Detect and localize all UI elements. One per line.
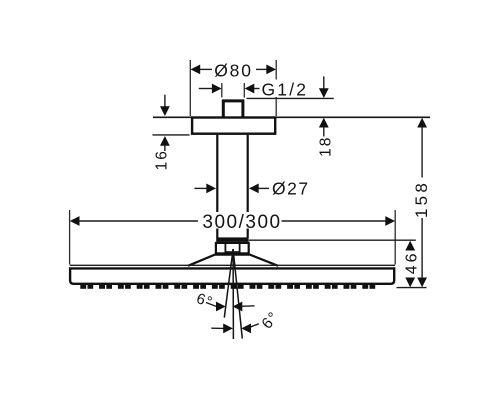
dimension 158: lower leader line [421, 218, 423, 279]
head bottom extension line [397, 287, 427, 289]
pipe bottom flange bar [216, 237, 248, 242]
svg-text:Ø27: Ø27 [272, 179, 310, 199]
dimension 300/300: right extension line [394, 210, 396, 265]
dimension 300/300: right arrowhead [385, 216, 395, 226]
dimension G1/2: right arrowhead pointing left [245, 84, 255, 94]
dimension 16: up arrowhead [160, 136, 170, 146]
angle dim upper: leader tail [206, 303, 217, 307]
svg-text:G1/2: G1/2 [262, 79, 309, 99]
dimension O80: left extension line [189, 60, 191, 116]
dimension 16: upper leader line [164, 95, 166, 108]
dimension O27: left arrowhead pointing right [206, 184, 216, 194]
spray line center [232, 249, 234, 339]
dimension 300/300: dimension line left segment [79, 220, 198, 222]
svg-text:16: 16 [154, 149, 171, 170]
dimension G1/2: right tail line [254, 88, 260, 90]
nut facet line right [239, 242, 241, 253]
dimension O27: right tail line [258, 187, 269, 189]
dimension 18: up arrowhead [319, 118, 329, 128]
plate bottom extension line [153, 134, 190, 136]
dimension O80: right arrowhead [266, 65, 276, 75]
angle dim upper: right tail [241, 305, 254, 308]
svg-text:Ø80: Ø80 [214, 60, 252, 80]
ball joint dark bar [226, 251, 239, 254]
angle dim lower: left-pointing arrowhead [241, 324, 251, 334]
connector top reference line [247, 97, 334, 99]
ceiling plate [192, 118, 275, 134]
dimension G1/2: right extension line [243, 83, 245, 98]
svg-text:300/300: 300/300 [202, 212, 281, 233]
svg-text:18: 18 [318, 136, 335, 157]
dimension 16: down arrowhead [160, 106, 170, 116]
dimension O80: right extension line upper segment [275, 60, 277, 80]
dimension 300/300: left extension line [69, 210, 71, 265]
shower head body [70, 268, 394, 283]
dimension O80: dimension line right segment [256, 68, 268, 70]
G1/2 connector body [223, 101, 243, 118]
connector nut [216, 243, 249, 254]
dimension G1/2: left extension line [221, 83, 223, 98]
angle dim lower: leader tail [250, 324, 259, 327]
spray line right [233, 249, 242, 339]
dimension 18: down arrowhead [319, 88, 329, 98]
cone top reference line for 46 [249, 239, 416, 241]
angle dim upper: left-pointing arrowhead [233, 302, 243, 312]
svg-text:46: 46 [404, 251, 421, 275]
ceiling line [153, 116, 430, 118]
dimension 46: up arrowhead [405, 241, 415, 251]
angle dim upper: right-pointing arrowhead [216, 302, 226, 312]
dimension O80: left arrowhead [191, 65, 201, 75]
nut facet line left [224, 242, 226, 253]
nozzle row [80, 285, 375, 289]
dimension O27: left tail line [194, 187, 207, 189]
dimension 158: up arrowhead [417, 118, 427, 128]
head top thin line [70, 264, 395, 266]
angle dim lower: left tail [211, 327, 224, 329]
mounting cone [188, 255, 278, 266]
dimension 16: lower leader line [164, 145, 166, 151]
svg-text:158: 158 [412, 180, 431, 218]
dimension 158: upper leader line [421, 127, 423, 178]
dimension O27: right arrowhead pointing left [249, 184, 259, 194]
dimension O80: dimension line left segment [199, 68, 212, 70]
dimension 18: upper leader line [323, 76, 325, 90]
dimension 300/300: dimension line right segment [282, 220, 387, 222]
dimension 158: down arrowhead [417, 278, 427, 288]
dimension O80: right extension line lower segment [275, 97, 277, 116]
pipe left wall [216, 135, 218, 212]
pipe right wall [247, 135, 249, 212]
angle dim lower: right-pointing arrowhead [223, 324, 233, 334]
dimension 18: lower leader line [323, 127, 325, 137]
dimension 46: down arrowhead [405, 278, 415, 288]
dimension G1/2: left arrowhead pointing right [212, 84, 222, 94]
dimension 300/300: left arrowhead [70, 216, 80, 226]
dimension G1/2: left tail line [199, 88, 213, 90]
spray line left [224, 249, 233, 318]
